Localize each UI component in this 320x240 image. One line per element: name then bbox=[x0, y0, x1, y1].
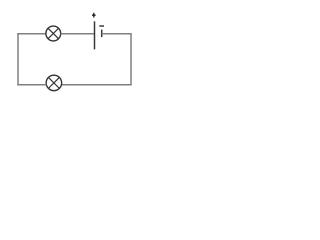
lamp L1 (top) circle bbox=[46, 26, 61, 41]
wire: top-right horizontal segment (battery negative to corner) bbox=[102, 33, 132, 35]
battery B1 negative plate (short) bbox=[101, 30, 103, 37]
wire: left vertical segment bbox=[17, 34, 19, 85]
wire: top-left horizontal segment bbox=[17, 33, 46, 35]
lamp L2 X cross bbox=[48, 77, 59, 88]
wire: bottom-right horizontal segment bbox=[61, 84, 131, 86]
battery B1 positive plate (long) bbox=[94, 21, 96, 49]
battery minus label bbox=[99, 25, 104, 27]
wire: top middle segment (lamp L1 to battery positive plate) bbox=[61, 33, 95, 35]
lamp L1 X cross bbox=[48, 28, 58, 38]
battery plus label bbox=[92, 13, 96, 18]
wire: right vertical segment bbox=[130, 34, 132, 85]
wire: bottom-left horizontal segment bbox=[17, 84, 46, 86]
lamp L2 (bottom) circle bbox=[46, 75, 62, 91]
